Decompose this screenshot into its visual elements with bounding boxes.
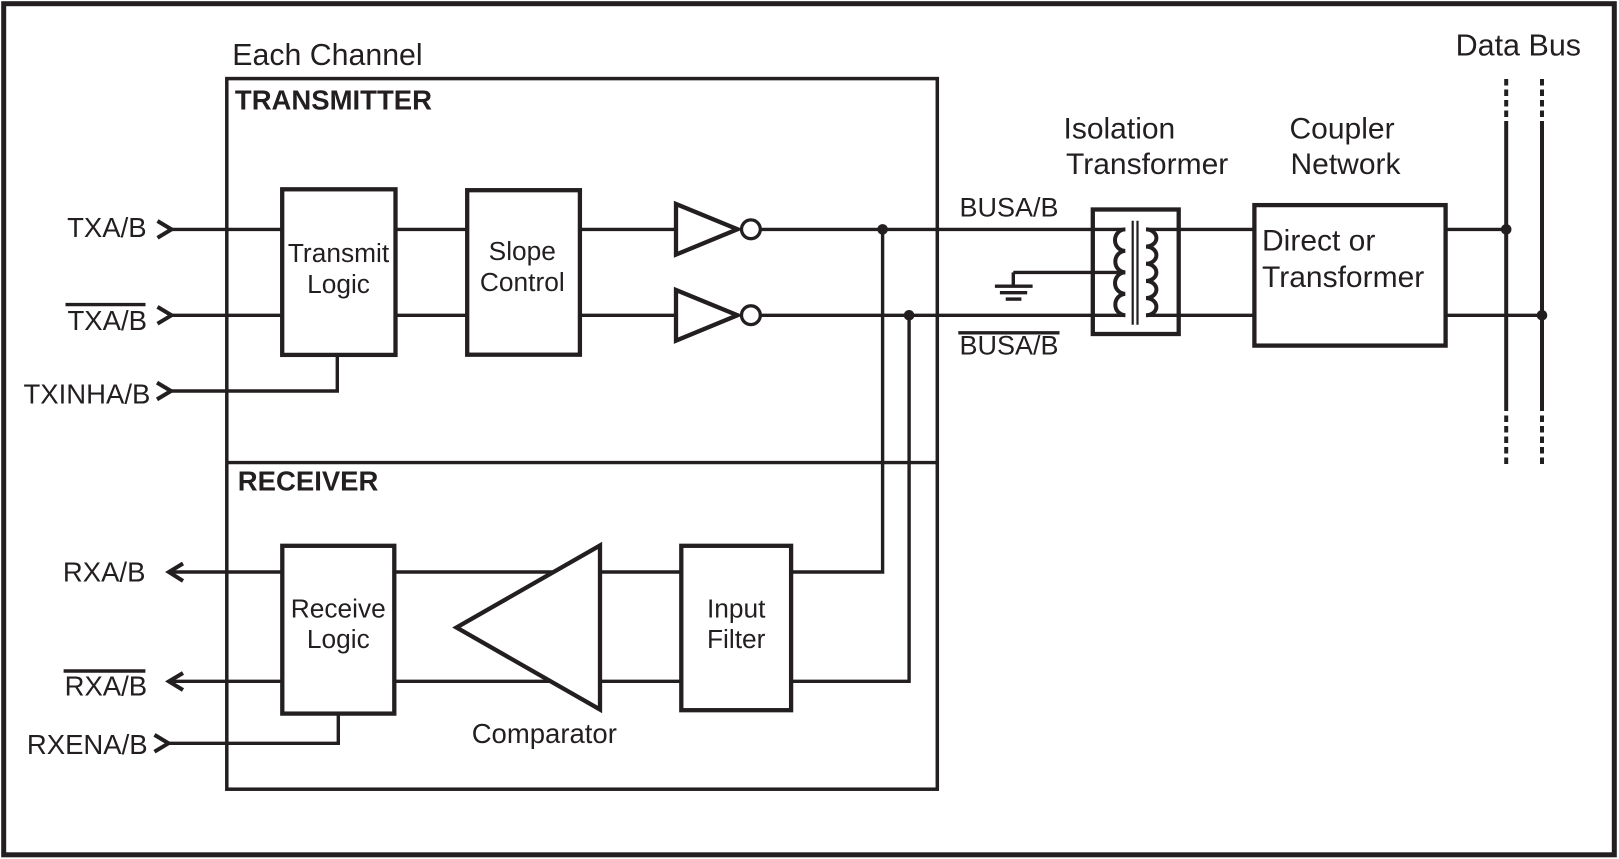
svg-text:Logic: Logic: [307, 269, 370, 299]
wire Receive Logic to RXA/B: [169, 570, 282, 573]
svg-text:Filter: Filter: [707, 624, 766, 654]
svg-text:RXA/B: RXA/B: [65, 671, 148, 702]
svg-text:Direct or: Direct or: [1262, 224, 1375, 257]
wire coupler to data bus line 1: [1446, 228, 1507, 231]
wire Slope Control to driver 2: [580, 314, 676, 317]
buffer driver 1: [676, 204, 760, 255]
svg-text:BUSA/B: BUSA/B: [960, 193, 1059, 223]
block Slope Control: [467, 190, 580, 355]
wire TXA/B to Transmit Logic: [171, 228, 282, 231]
label Isolation Transformer: [1064, 113, 1229, 181]
svg-text:TXINHA/B: TXINHA/B: [24, 379, 151, 410]
svg-text:Each Channel: Each Channel: [232, 39, 422, 72]
wire Receive Logic to comparator (top): [394, 570, 681, 573]
svg-text:Coupler: Coupler: [1290, 113, 1395, 146]
svg-text:TXA/B: TXA/B: [67, 212, 146, 243]
node TXA/B input: [67, 212, 171, 243]
block Input Filter: [681, 546, 791, 710]
svg-text:Transformer: Transformer: [1066, 148, 1228, 181]
wire Slope Control to driver 1: [580, 228, 676, 231]
junction data bus line 2: [1537, 310, 1548, 321]
junction data bus line 1: [1501, 224, 1512, 235]
label Coupler Network: [1290, 113, 1402, 181]
wire TXA/B-bar to Transmit Logic: [171, 314, 282, 317]
wire driver 2 output to BUSA/B-bar: [760, 314, 1125, 317]
svg-text:Network: Network: [1291, 148, 1402, 181]
svg-text:Receive: Receive: [291, 594, 386, 624]
wire Receive Logic to comparator (bottom): [394, 680, 681, 683]
transformer T1 isolation transformer: [1093, 210, 1179, 335]
node Each Channel block: [227, 79, 938, 790]
op-amp comparator: [457, 546, 601, 710]
svg-text:Control: Control: [480, 267, 565, 297]
wire coupler to data bus line 2: [1446, 314, 1542, 317]
svg-text:Logic: Logic: [307, 624, 370, 654]
block Direct or Transformer coupler: [1254, 205, 1445, 346]
wire BUSA/B feedback to Input Filter: [791, 229, 883, 572]
junction BUSA/B tap: [877, 224, 888, 235]
node RXA/B-bar output: [64, 671, 183, 702]
svg-text:RXA/B: RXA/B: [63, 557, 146, 588]
block Receive Logic: [282, 546, 394, 714]
wire Transmit Logic to Slope Control (top): [396, 228, 468, 231]
node RXENA/B input: [27, 729, 169, 760]
wire data bus line 2: [1540, 79, 1544, 468]
label BUSA/B-bar: [958, 330, 1059, 360]
svg-text:Input: Input: [707, 594, 766, 624]
junction BUSA/B-bar tap: [904, 310, 915, 321]
buffer driver 2: [676, 290, 760, 341]
svg-text:Data Bus: Data Bus: [1456, 29, 1581, 63]
wire RXENA/B to Receive Logic bottom: [168, 714, 338, 744]
wire receiver section divider: [227, 461, 938, 464]
block Transmit Logic: [282, 189, 395, 355]
svg-text:Slope: Slope: [489, 236, 556, 266]
wire transformer to coupler (bottom): [1146, 314, 1254, 317]
node TXINHA/B input: [24, 379, 172, 410]
svg-text:TRANSMITTER: TRANSMITTER: [235, 85, 432, 116]
svg-text:Isolation: Isolation: [1064, 113, 1176, 146]
svg-text:Transformer: Transformer: [1262, 261, 1424, 294]
wire Receive Logic to RXA/B-bar: [169, 680, 282, 683]
wire BUSA/B-bar feedback to Input Filter: [791, 315, 909, 681]
wire Transmit Logic to Slope Control (bottom): [396, 314, 468, 317]
svg-text:RXENA/B: RXENA/B: [27, 729, 148, 760]
svg-text:Comparator: Comparator: [472, 718, 617, 749]
wire TXINHA/B to Transmit Logic bottom: [171, 355, 338, 391]
wire ground to transformer center tap: [1013, 271, 1125, 274]
wire data bus line 1: [1504, 79, 1508, 468]
svg-text:Transmit: Transmit: [288, 238, 390, 268]
node TXA/B-bar input: [66, 305, 172, 336]
svg-text:RECEIVER: RECEIVER: [238, 466, 379, 497]
wire transformer to coupler (top): [1146, 228, 1254, 231]
ground: [995, 272, 1033, 299]
svg-text:TXA/B: TXA/B: [68, 305, 147, 336]
wire driver 1 output to BUSA/B: [760, 228, 1125, 231]
svg-text:BUSA/B: BUSA/B: [960, 330, 1059, 360]
node RXA/B output: [63, 557, 183, 588]
